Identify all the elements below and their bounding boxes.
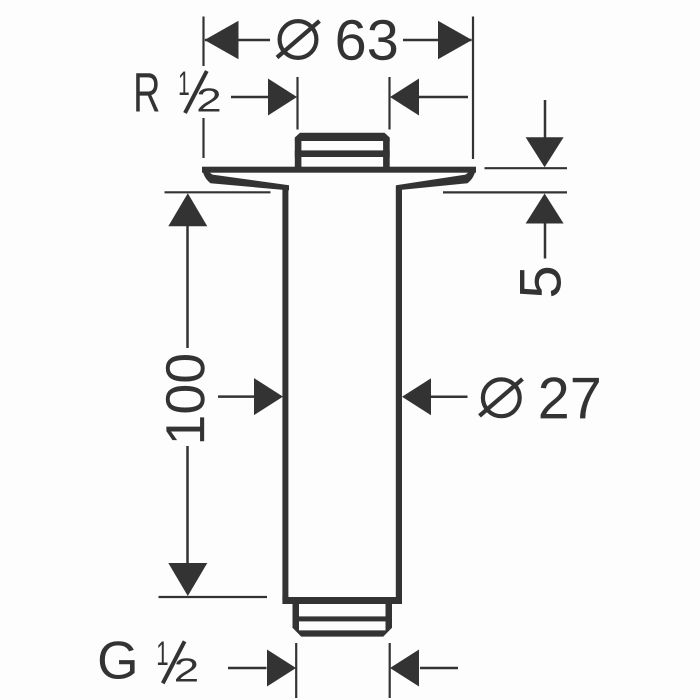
dimension line 5 upper segment (544, 100, 547, 139)
dimension line R1/2 left segment (231, 96, 270, 99)
flange left rim and bottom slope (202, 167, 289, 191)
arrow 100 bottom (168, 563, 207, 596)
arrow 5 down (526, 137, 564, 167)
arrow G1/2 right (390, 650, 419, 687)
label R (136, 73, 158, 111)
threaded tip middle band (293, 616, 393, 621)
extension line bottom of 100 (159, 596, 268, 598)
threaded tip left wall (293, 604, 300, 628)
white gap behind 1/2 fraction (172, 66, 222, 118)
threaded collar top cap (295, 133, 390, 141)
extension line left of G1/2 (295, 643, 297, 698)
dimension line Ø63 right segment (403, 39, 472, 42)
fraction 1/2 of R1/2 (180, 71, 220, 113)
threaded collar right wall (383, 139, 390, 168)
arrow Ø27 left (254, 378, 283, 415)
diameter symbol of Ø27 label (480, 379, 523, 416)
dimension line 100 upper segment (186, 222, 189, 348)
extension line right of R1/2 (388, 77, 390, 130)
dimension line Ø63 left segment (205, 39, 270, 42)
fraction 1/2 of G1/2 (158, 641, 197, 683)
dimension line Ø27 right segment (431, 396, 468, 399)
label 100 (166, 355, 205, 441)
extension line top of 100 (165, 191, 271, 193)
extension line bottom of 5 (443, 191, 567, 193)
arrow R1/2 left (268, 79, 297, 116)
diameter symbol of Ø63 label (277, 21, 320, 58)
dimension line G1/2 left segment (228, 667, 267, 670)
arrow Ø63 left (205, 21, 239, 59)
dimension line G1/2 right segment (420, 667, 458, 670)
arrow 5 up (526, 194, 564, 224)
pipe bottom edge (282, 597, 402, 604)
threaded tip bottom with chamfers (293, 624, 393, 637)
arrow G1/2 left (267, 650, 296, 687)
arrow Ø63 right (438, 21, 472, 59)
threaded collar middle band (295, 150, 390, 157)
flange top plate (202, 167, 476, 173)
arrow 100 top (168, 193, 207, 226)
arrow R1/2 right (390, 79, 419, 116)
threaded collar left wall (295, 139, 302, 168)
flange right rim and bottom slope (396, 167, 476, 191)
threaded tip right wall (386, 604, 393, 628)
extension line right of Ø63 (472, 17, 474, 160)
label 5 (520, 268, 561, 297)
dimension line R1/2 right segment (419, 96, 468, 99)
pipe right wall (396, 186, 402, 600)
extension line right of G1/2 (389, 643, 391, 698)
label 63 (338, 20, 397, 60)
dimension line Ø27 left segment (218, 395, 255, 398)
dimension line 100 lower segment (186, 446, 189, 567)
dimension line 5 lower segment (544, 223, 547, 259)
label 27 (541, 377, 599, 418)
pipe left wall (282, 186, 288, 600)
arrow Ø27 right (402, 378, 431, 415)
extension line top of 5 (485, 167, 568, 169)
extension line left of R1/2 (296, 77, 298, 130)
label G (100, 641, 135, 679)
extension line left of Ø63 (202, 17, 204, 159)
